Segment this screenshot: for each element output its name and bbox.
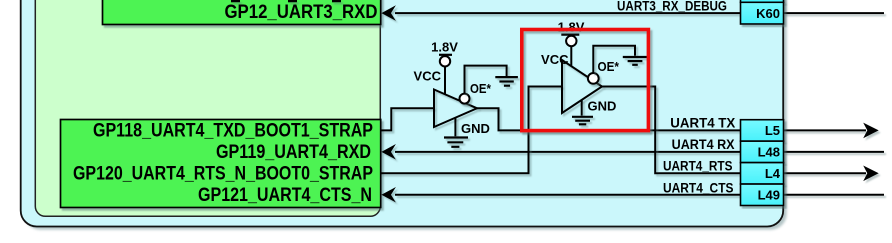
enable bubble OE* (U2) bbox=[588, 73, 599, 84]
wire UART4 TX (right segment with arrow) bbox=[784, 123, 879, 139]
svg-text:OE*: OE* bbox=[598, 59, 620, 74]
svg-text:GP118_UART4_TXD_BOOT1_STRAP: GP118_UART4_TXD_BOOT1_STRAP bbox=[93, 120, 373, 142]
enable bubble OE* (U1) bbox=[460, 94, 470, 104]
pin number L5 bbox=[765, 123, 780, 138]
wire UART4 RX row (arrow into GP119) bbox=[381, 144, 740, 160]
pin number L49 bbox=[758, 187, 780, 202]
net label UART4 TX bbox=[670, 116, 735, 131]
pin number K60 bbox=[756, 6, 780, 21]
wire UART4 CTS row (arrow into GP121) bbox=[381, 187, 740, 203]
ground symbol (U2 GND) bbox=[572, 117, 593, 125]
wire U1 output to UART4 TX row bbox=[477, 108, 741, 130]
wire U2 output to UART4_RTS row bbox=[602, 87, 741, 174]
ground symbol (U1 OE) bbox=[495, 77, 518, 86]
svg-text:L49: L49 bbox=[758, 187, 780, 202]
pin number L4 bbox=[765, 166, 781, 181]
pin name GP118_UART4_TXD_BOOT1_STRAP bbox=[93, 120, 373, 142]
svg-text:VCC: VCC bbox=[414, 69, 442, 84]
svg-text:UART4_RTS: UART4_RTS bbox=[663, 159, 733, 174]
svg-text:GND: GND bbox=[461, 121, 490, 136]
svg-text:UART3_RX_DEBUG: UART3_RX_DEBUG bbox=[617, 0, 727, 13]
svg-text:UART4_CTS: UART4_CTS bbox=[663, 180, 734, 195]
buffer U2 (1.8V level shifter, in red highlight) bbox=[562, 60, 602, 113]
pin box (cut off above K60) bbox=[741, 0, 784, 2]
svg-text:1.8V: 1.8V bbox=[558, 20, 585, 35]
ground symbol (U1 GND) bbox=[444, 138, 468, 147]
svg-text:1.8V: 1.8V bbox=[431, 39, 458, 54]
svg-text:L4: L4 bbox=[765, 166, 781, 181]
pin label GND (U1) bbox=[461, 121, 490, 136]
pin label VCC (U2) bbox=[541, 52, 569, 67]
pin K60 box bbox=[741, 2, 784, 24]
pin L4 box bbox=[741, 163, 784, 184]
pin number L48 bbox=[758, 145, 780, 160]
wire UART3_RX_DEBUG (right segment to edge) bbox=[784, 12, 885, 14]
net label UART4 RX bbox=[672, 137, 735, 152]
pin label box GP11/GP12 UART3 bbox=[103, 0, 381, 25]
pin name GP119_UART4_RXD bbox=[216, 141, 371, 163]
power net 1.8V (U1) bbox=[431, 39, 458, 94]
pin L49 box bbox=[741, 184, 784, 205]
wire UART4_RTS (right segment with arrow) bbox=[784, 166, 879, 182]
svg-text:GND: GND bbox=[588, 99, 617, 114]
net label UART3_RX_DEBUG bbox=[617, 0, 727, 13]
svg-text:GP119_UART4_RXD: GP119_UART4_RXD bbox=[216, 141, 371, 163]
pin name GP120_UART4_RTS_N_BOOT0_STRAP bbox=[73, 162, 373, 184]
pin L5 box bbox=[741, 120, 784, 141]
pin label GND (U2) bbox=[588, 99, 617, 114]
wire GP120_UART4_RTS_N to buffer U2 input bbox=[381, 87, 563, 174]
wire UART3_RX_DEBUG (left segment with input arrow into GP12) bbox=[381, 5, 740, 21]
net label UART4_RTS bbox=[663, 159, 733, 174]
svg-text:GP121_UART4_CTS_N: GP121_UART4_CTS_N bbox=[198, 184, 372, 206]
pin label OE* (U2) bbox=[598, 59, 620, 74]
wire UART4 CTS (right segment) bbox=[784, 194, 885, 196]
ground symbol (U2 OE) bbox=[623, 57, 647, 65]
pin name GP11_UART3_TXD (cut off at top, only underscore bottoms visible) bbox=[231, 0, 341, 2]
power net 1.8V (U2) bbox=[558, 20, 585, 67]
wire GND (U1) bbox=[454, 118, 456, 137]
pin label VCC (U1) bbox=[414, 69, 442, 84]
chip GPIO block bbox=[35, 0, 380, 216]
pin name GP12_UART3_RXD bbox=[225, 1, 378, 23]
svg-text:UART4 RX: UART4 RX bbox=[672, 137, 735, 152]
pin L48 box bbox=[741, 141, 784, 162]
wire GP118_UART4_TXD to buffer U1 input bbox=[381, 108, 435, 130]
svg-text:GP120_UART4_RTS_N_BOOT0_STRAP: GP120_UART4_RTS_N_BOOT0_STRAP bbox=[73, 162, 373, 184]
sheet outline (hierarchical sheet) bbox=[21, 0, 784, 227]
wire UART4 RX (right segment) bbox=[784, 151, 885, 153]
svg-text:OE*: OE* bbox=[470, 81, 492, 96]
svg-text:L48: L48 bbox=[758, 145, 780, 160]
buffer U1 (1.8V level shifter, left) bbox=[434, 90, 477, 128]
pin label box GP118-GP121 UART4 bbox=[61, 120, 381, 208]
pin label OE* (U1) bbox=[470, 81, 492, 96]
wire OE* (U1) to ground bbox=[465, 66, 507, 94]
wire OE* (U2) to ground bbox=[593, 46, 635, 74]
svg-text:L5: L5 bbox=[765, 123, 780, 138]
highlight box (red) around buffer U2 bbox=[522, 30, 649, 131]
svg-text:GP12_UART3_RXD: GP12_UART3_RXD bbox=[225, 1, 378, 23]
svg-text:K60: K60 bbox=[756, 6, 780, 21]
net label UART4_CTS bbox=[663, 180, 734, 195]
svg-text:UART4 TX: UART4 TX bbox=[670, 116, 735, 131]
pin name GP121_UART4_CTS_N bbox=[198, 184, 372, 206]
svg-text:VCC: VCC bbox=[541, 52, 569, 67]
wire GND (U2) bbox=[581, 100, 583, 116]
